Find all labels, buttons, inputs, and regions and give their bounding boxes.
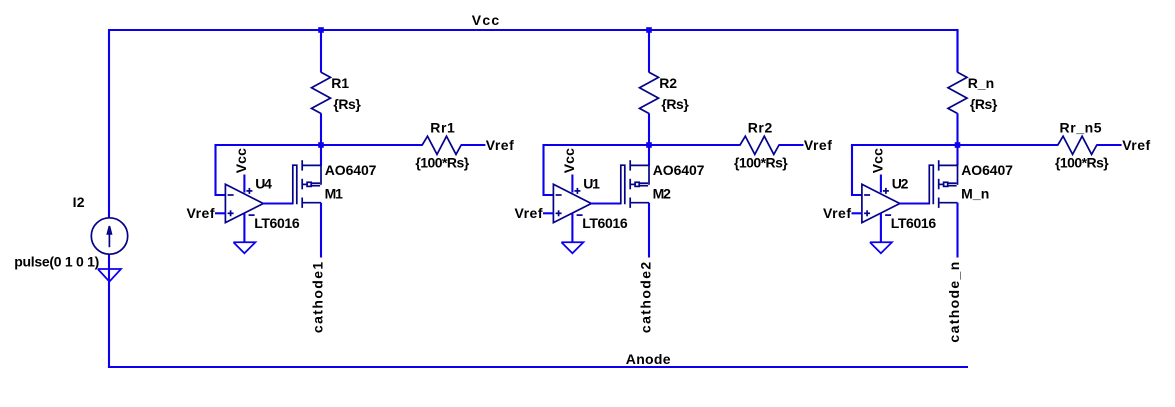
wire from resistor R_n to node xyxy=(956,113,958,145)
resistor Rr2 xyxy=(740,136,779,154)
svg-text:AO6407: AO6407 xyxy=(325,162,377,178)
current source I2 arrow shaft xyxy=(108,230,110,247)
svg-text:Vcc: Vcc xyxy=(869,148,885,173)
wire op-amp output to gate of M_n xyxy=(899,202,930,204)
op-amp U1 non-inverting input marker xyxy=(556,212,562,214)
wire node rail right toward resistor Rr_n5 xyxy=(958,144,1059,146)
op-amp U1 inverting input marker xyxy=(556,194,562,196)
svg-text:LT6016: LT6016 xyxy=(582,215,628,231)
wire feedback to op-amp inverting input 1 xyxy=(216,144,227,195)
wire bulk/source tie of M_n xyxy=(957,164,959,185)
wire Vref stub to non-inverting input 1 xyxy=(215,212,226,214)
ground symbol below op-amp U4 xyxy=(233,242,255,253)
svg-text:Vref: Vref xyxy=(486,137,514,153)
svg-text:pulse(0 1 0 1): pulse(0 1 0 1) xyxy=(14,253,99,269)
svg-text:{Rs}: {Rs} xyxy=(661,96,689,112)
svg-text:U2: U2 xyxy=(892,176,909,192)
resistor R1 xyxy=(312,72,331,113)
op-amp U4 inverting input marker xyxy=(228,194,234,196)
wire from Vcc rail to resistor R_n xyxy=(956,30,958,73)
svg-text:Vref: Vref xyxy=(804,137,832,153)
wire op-amp output to gate of M1 xyxy=(263,202,294,204)
node junction drain rail 1 xyxy=(318,142,324,148)
transistor M1 drain stub xyxy=(302,202,321,204)
resistor R_n xyxy=(948,72,967,113)
wire Anode bottom rail xyxy=(108,366,968,368)
svg-text:{100*Rs}: {100*Rs} xyxy=(1055,154,1109,170)
transistor M_n bulk arrow xyxy=(939,183,944,185)
svg-text:{100*Rs}: {100*Rs} xyxy=(415,154,469,170)
svg-text:{Rs}: {Rs} xyxy=(970,96,998,112)
wire Vcc top rail xyxy=(108,29,958,31)
svg-text:cathode1: cathode1 xyxy=(310,260,326,333)
svg-text:{100*Rs}: {100*Rs} xyxy=(734,154,788,170)
op-amp U1 V+ supply pin xyxy=(571,175,573,193)
wire from resistor R2 to node xyxy=(648,113,650,145)
svg-text:Vref: Vref xyxy=(1122,137,1150,153)
ground symbol below op-amp U2 xyxy=(870,242,892,253)
wire bulk/source tie of M1 xyxy=(320,164,322,185)
transistor M2 drain stub xyxy=(630,202,649,204)
wire drain of M_n down to cathode xyxy=(956,203,958,258)
node junction on Vcc rail at top of R2 xyxy=(646,27,652,33)
svg-text:Rr2: Rr2 xyxy=(748,120,773,136)
transistor M1 bulk arrow xyxy=(302,183,307,185)
transistor M_n source stub xyxy=(939,164,958,166)
wire from resistor R1 to node xyxy=(320,113,322,145)
transistor M_n gate bar xyxy=(929,165,933,204)
wire left vertical from Vcc rail down to I2 xyxy=(108,29,110,218)
op-amp U2 inverting input marker xyxy=(864,194,870,196)
wire node rail right toward resistor Rr2 xyxy=(649,144,741,146)
wire node rail right toward resistor Rr1 xyxy=(321,144,423,146)
op-amp U1 V- supply pin xyxy=(571,214,573,243)
transistor M2 source stub xyxy=(630,164,649,166)
op-amp U2 V- supply pin xyxy=(880,214,882,243)
svg-text:M2: M2 xyxy=(653,186,672,202)
svg-text:cathode2: cathode2 xyxy=(638,260,654,333)
op-amp U2 V+ marker xyxy=(883,190,889,192)
op-amp U4 V- marker xyxy=(249,214,255,216)
svg-text:Vcc: Vcc xyxy=(233,148,249,173)
wire right vertical from Vcc rail down into R_n xyxy=(956,29,958,72)
resistor Rr1 xyxy=(422,136,461,154)
svg-text:M1: M1 xyxy=(325,186,344,202)
wire drain of M1 down to cathode xyxy=(320,203,322,258)
svg-text:LT6016: LT6016 xyxy=(254,215,300,231)
op-amp U2 non-inverting input marker xyxy=(864,212,870,214)
svg-text:U1: U1 xyxy=(583,176,600,192)
op-amp U4 V- supply pin xyxy=(243,214,245,243)
wire source of M1 up to node xyxy=(320,145,322,165)
node junction drain rail 2 xyxy=(646,142,652,148)
wire source of M_n up to node xyxy=(956,145,958,165)
transistor M2 bulk arrow xyxy=(630,183,635,185)
op-amp U4 V+ marker xyxy=(246,190,252,192)
svg-text:R1: R1 xyxy=(331,75,349,91)
wire bulk/source tie of M2 xyxy=(648,164,650,185)
wire from Vcc rail to resistor R2 xyxy=(648,30,650,73)
transistor M2 channel segments xyxy=(629,160,631,170)
wire I2 bottom to ground flag and Anode rail xyxy=(108,254,110,369)
op-amp U1 LT6016 triangle xyxy=(553,184,591,222)
op-amp U4 V+ supply pin xyxy=(243,175,245,193)
transistor M_n channel segments xyxy=(938,160,940,170)
resistor Rr_n5 xyxy=(1058,136,1097,154)
svg-text:M_n: M_n xyxy=(961,186,989,202)
svg-text:R2: R2 xyxy=(659,75,677,91)
op-amp U1 V+ marker xyxy=(574,190,580,192)
svg-text:Anode: Anode xyxy=(626,351,671,367)
op-amp U4 LT6016 triangle xyxy=(225,184,263,222)
wire feedback to op-amp inverting input n xyxy=(852,144,863,195)
svg-text:Rr1: Rr1 xyxy=(430,120,455,136)
resistor R2 xyxy=(640,72,659,113)
transistor M_n drain stub xyxy=(939,202,958,204)
transistor M2 gate bar xyxy=(621,165,625,204)
wire Vref stub to non-inverting input n xyxy=(852,212,863,214)
wire op-amp output to gate of M2 xyxy=(591,202,622,204)
svg-text:R_n: R_n xyxy=(968,75,994,91)
transistor M1 gate bar xyxy=(293,165,297,204)
svg-text:{Rs}: {Rs} xyxy=(333,96,361,112)
svg-text:Rr_n5: Rr_n5 xyxy=(1060,120,1103,136)
svg-text:Vref: Vref xyxy=(187,205,215,221)
svg-text:AO6407: AO6407 xyxy=(653,162,705,178)
transistor M1 source stub xyxy=(302,164,321,166)
op-amp U2 V- marker xyxy=(885,214,891,216)
svg-text:AO6407: AO6407 xyxy=(961,162,1013,178)
svg-text:cathode_n: cathode_n xyxy=(946,260,962,342)
wire node rail left toward op-amp feedback 2 xyxy=(544,144,650,146)
node junction on Vcc rail at top of R1 xyxy=(318,27,324,33)
wire Rr1 to Vref label xyxy=(461,144,486,146)
op-amp U2 V+ supply pin xyxy=(880,175,882,193)
wire feedback to op-amp inverting input 2 xyxy=(544,144,555,195)
wire node rail left toward op-amp feedback 1 xyxy=(216,144,322,146)
op-amp U1 V- marker xyxy=(577,214,583,216)
svg-text:U4: U4 xyxy=(255,176,272,192)
wire Vref stub to non-inverting input 2 xyxy=(543,212,554,214)
ground flag on I2 bottom wire xyxy=(98,269,121,282)
wire source of M2 up to node xyxy=(648,145,650,165)
transistor M1 channel segments xyxy=(301,160,303,170)
svg-text:Vref: Vref xyxy=(823,205,851,221)
op-amp U2 LT6016 triangle xyxy=(862,184,900,222)
wire from Vcc rail to resistor R1 xyxy=(320,30,322,73)
svg-text:I2: I2 xyxy=(73,194,85,210)
wire node rail left toward op-amp feedback n xyxy=(852,144,958,146)
svg-text:LT6016: LT6016 xyxy=(891,215,937,231)
wire Rr2 to Vref label xyxy=(779,144,804,146)
current source I2 arrowhead xyxy=(107,226,111,234)
node junction drain rail n xyxy=(955,142,961,148)
svg-text:Vcc: Vcc xyxy=(472,12,501,28)
current source I2 circle xyxy=(91,218,127,254)
svg-text:Vcc: Vcc xyxy=(561,148,577,173)
op-amp U4 non-inverting input marker xyxy=(228,212,234,214)
svg-text:Vref: Vref xyxy=(515,205,543,221)
ground symbol below op-amp U1 xyxy=(561,242,583,253)
wire Rr_n5 to Vref label xyxy=(1096,144,1121,146)
wire drain of M2 down to cathode xyxy=(648,203,650,258)
